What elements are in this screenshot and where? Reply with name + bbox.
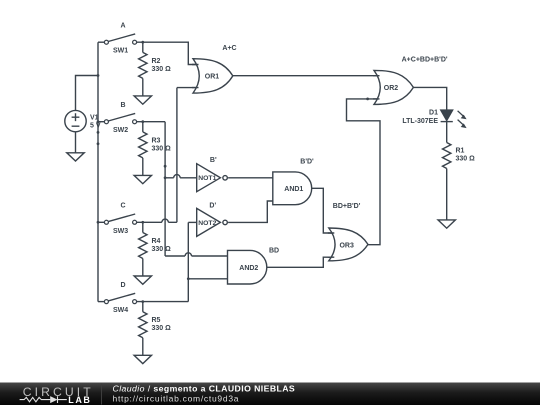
hop: B wire over D rail <box>185 253 191 256</box>
svg-text:R5: R5 <box>152 317 161 324</box>
junction B rail to NOT1 input <box>164 176 167 179</box>
resistor R3 330 <box>139 132 172 158</box>
svg-text:A+C: A+C <box>222 45 236 52</box>
footer bar <box>0 383 540 405</box>
svg-text:C: C <box>120 203 125 210</box>
wire OR1 output A+C to OR2 top input <box>233 75 382 77</box>
wire R4 bottom to ground <box>142 259 144 277</box>
svg-text:SW3: SW3 <box>113 228 128 235</box>
ground below R5 <box>134 355 151 363</box>
junction rail segment joint 1 <box>97 131 100 134</box>
or-gate OR2 <box>373 70 413 104</box>
switch SW4 (input D) <box>104 282 136 314</box>
svg-text:330 Ω: 330 Ω <box>152 246 172 253</box>
wire node A: SW1 to R2 and OR1 input <box>137 42 200 64</box>
wire node C: SW3 to C rail (hops B rail) <box>137 221 177 223</box>
svg-text:LAB: LAB <box>68 395 91 405</box>
svg-text:http://circuitlab.com/ctu9d3a: http://circuitlab.com/ctu9d3a <box>113 394 240 404</box>
wire AND2 output BD to OR3 bottom input <box>267 257 334 267</box>
junction rail segment joint 2 <box>97 142 100 145</box>
svg-text:OR2: OR2 <box>384 85 399 92</box>
junction SW2 stub on rail <box>97 120 100 123</box>
svg-text:R2: R2 <box>152 58 161 65</box>
wire R4 top <box>142 222 144 232</box>
switch SW2 (input B) <box>104 102 136 134</box>
svg-text:NOT2: NOT2 <box>198 220 216 227</box>
wire LED cathode to R1 <box>446 122 448 143</box>
wire OR3 output BD+B'D' riser to OR2 bottom input <box>347 99 383 245</box>
wire SW3 left stub <box>98 221 105 223</box>
svg-text:Claudio / segmento a CLAUDIO N: Claudio / segmento a CLAUDIO NIEBLAS <box>113 384 296 394</box>
wire C into OR1 lower input <box>177 87 200 89</box>
switch SW3 (input C) <box>104 203 136 235</box>
and-gate AND1 <box>273 172 312 205</box>
wire NOT1 output to AND1 top input <box>228 177 273 179</box>
junction node D at R5 <box>141 300 144 303</box>
wire node D: SW4 to D rail <box>137 301 189 303</box>
junction node C at R4 <box>141 221 144 224</box>
wire SW1 left stub <box>98 41 105 43</box>
svg-text:D: D <box>120 282 125 289</box>
footer divider <box>101 384 103 405</box>
svg-text:R3: R3 <box>152 137 161 144</box>
svg-text:330 Ω: 330 Ω <box>152 145 172 152</box>
resistor R5 330 <box>139 312 172 338</box>
ground below R1 <box>438 220 455 228</box>
and-gate AND2 <box>228 250 267 284</box>
svg-text:V1: V1 <box>90 114 99 121</box>
ground below R4 <box>134 276 151 284</box>
voltage source V1 5V <box>65 110 101 131</box>
inverter NOT1 <box>197 164 228 192</box>
wire left supply rail vertical <box>97 42 99 301</box>
wire SW2 left stub <box>98 121 105 123</box>
ground below V1 <box>67 153 84 161</box>
svg-text:SW1: SW1 <box>113 48 128 55</box>
wire R5 top <box>142 302 144 312</box>
wire OR2 output to LED D1 <box>413 87 446 110</box>
junction V1 to rail <box>97 74 100 77</box>
wire SW4 left stub <box>98 301 105 303</box>
svg-text:OR3: OR3 <box>339 242 354 249</box>
inverter NOT2 <box>197 208 228 236</box>
svg-text:OR1: OR1 <box>205 73 220 80</box>
svg-text:B': B' <box>210 157 217 164</box>
hop: C wire over B rail <box>162 219 168 222</box>
wire D rail vertical up to NOT2 <box>187 222 189 301</box>
wire R2 top <box>142 42 144 52</box>
wire D into NOT2 input <box>188 221 196 223</box>
svg-text:NOT1: NOT1 <box>198 175 216 182</box>
switch SW1 (input A) <box>104 23 136 55</box>
resistor R4 330 <box>139 233 172 259</box>
wire NOT1 input from B rail (hops C rail) <box>165 177 197 179</box>
wire R3 bottom to ground <box>142 158 144 176</box>
or-gate OR3 <box>328 228 368 261</box>
wire D to AND2 bottom input <box>188 278 227 280</box>
logo resistor-diode doodle <box>20 396 67 403</box>
wire B to AND2 top input (hops D rail) <box>165 255 227 257</box>
junction node B at R3 <box>141 120 144 123</box>
resistor R1 330 <box>443 143 476 169</box>
svg-text:A: A <box>120 23 125 30</box>
svg-text:R1: R1 <box>456 147 465 154</box>
resistor R2 330 <box>139 52 172 78</box>
junction SW3 stub on rail <box>97 221 100 224</box>
svg-text:330 Ω: 330 Ω <box>152 66 172 73</box>
junction node A at R2 <box>141 41 144 44</box>
wire node B: SW2 to B rail <box>137 121 166 123</box>
ground below R2 <box>134 96 151 104</box>
wire R5 bottom to ground <box>142 338 144 356</box>
svg-text:LTL-307EE: LTL-307EE <box>402 118 438 125</box>
wire C rail vertical up to OR1 <box>176 88 178 223</box>
svg-text:D': D' <box>209 203 216 210</box>
wire V1 top to rail <box>76 76 99 111</box>
svg-text:B: B <box>120 102 125 109</box>
ground below R3 <box>134 175 151 183</box>
svg-text:5 V: 5 V <box>90 123 101 130</box>
svg-text:330 Ω: 330 Ω <box>152 325 172 332</box>
hop: NOT1 input wire over C rail <box>174 175 180 178</box>
svg-text:BD+B'D': BD+B'D' <box>333 203 361 210</box>
wire NOT2 output to AND1 bottom input <box>228 201 273 222</box>
svg-text:D1: D1 <box>429 110 438 117</box>
wire B rail vertical down to AND2 row <box>164 122 166 256</box>
svg-text:AND2: AND2 <box>239 265 258 272</box>
wire R3 top <box>142 122 144 132</box>
svg-text:330 Ω: 330 Ω <box>456 155 476 162</box>
junction B rail segment joint <box>164 165 167 168</box>
wire R1 bottom to ground <box>446 169 448 220</box>
svg-text:SW2: SW2 <box>113 127 128 134</box>
junction D rail to AND2 input <box>187 277 190 280</box>
svg-text:B'D': B'D' <box>300 159 314 166</box>
svg-text:AND1: AND1 <box>284 186 303 193</box>
LED D1 LTL-307EE <box>402 110 466 128</box>
wire R2 bottom to ground <box>142 78 144 96</box>
or-gate OR1 <box>192 59 233 93</box>
svg-text:BD: BD <box>269 248 279 255</box>
svg-text:A+C+BD+B'D': A+C+BD+B'D' <box>402 56 448 63</box>
wire V1 bottom to ground <box>75 132 77 153</box>
wire AND1 output B'D' to OR3 top input <box>312 188 334 233</box>
svg-text:SW4: SW4 <box>113 307 128 314</box>
junction OR2 lower input wire joint <box>366 98 369 101</box>
svg-text:R4: R4 <box>152 238 161 245</box>
